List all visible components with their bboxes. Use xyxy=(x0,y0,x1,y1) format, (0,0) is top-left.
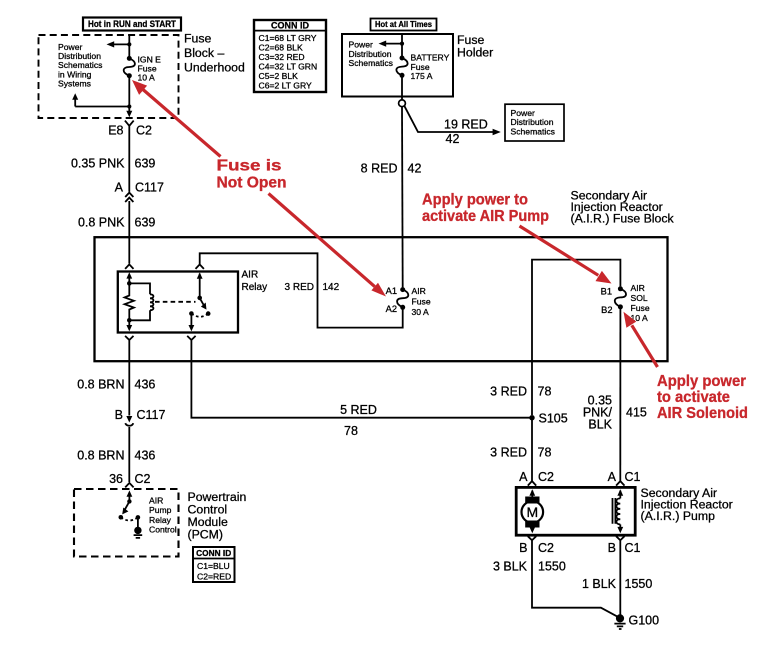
label: E8 C2 xyxy=(108,123,152,137)
wire: S105 riser up and over to fuse B1 xyxy=(532,260,620,415)
svg-text:Apply power: Apply power xyxy=(657,373,746,390)
svg-text:BLK: BLK xyxy=(588,417,612,431)
connector E8/C2 female Y symbol xyxy=(125,121,134,158)
svg-text:436: 436 xyxy=(135,378,156,392)
connector Y below pump (motor side) xyxy=(528,536,536,544)
svg-text:78: 78 xyxy=(538,385,552,399)
fuse AIR 30A xyxy=(397,287,408,310)
relay coil link dashed line xyxy=(155,301,196,303)
wire: exit to E8 with down arrow xyxy=(126,107,132,118)
svg-text:C1: C1 xyxy=(625,541,641,555)
svg-text:C2: C2 xyxy=(135,472,151,486)
label: Fuse Holder xyxy=(457,33,493,59)
label: A C2 (pump motor) xyxy=(519,470,554,484)
svg-text:Hot in RUN and START: Hot in RUN and START xyxy=(88,19,176,29)
svg-text:Schematics: Schematics xyxy=(349,58,393,68)
svg-text:8 RED: 8 RED xyxy=(361,162,398,176)
wire: 0.8 BRN 436 down to C117 xyxy=(128,344,130,416)
svg-text:C2=RED: C2=RED xyxy=(197,572,231,582)
svg-text:3 BLK: 3 BLK xyxy=(493,560,528,574)
label: 3 RED 78 (below S105) xyxy=(490,446,551,460)
svg-text:Fuse: Fuse xyxy=(631,303,650,313)
label: AIR Relay xyxy=(242,269,268,292)
wire: diagonal branch to power distribution arrow 19 RED 42 xyxy=(404,106,501,136)
svg-text:A: A xyxy=(519,470,528,484)
svg-text:Relay: Relay xyxy=(242,282,268,293)
label: 5 RED 78 xyxy=(340,403,377,438)
wire: into relay coil with up arrow xyxy=(126,272,132,283)
fuse BATTERY 175A xyxy=(396,56,407,78)
wire: branch arrow left (battery box) xyxy=(379,41,403,47)
wire: below fuse to branch xyxy=(128,76,130,107)
svg-text:3 RED: 3 RED xyxy=(490,385,527,399)
svg-text:C117: C117 xyxy=(135,181,164,195)
pump motor M symbol xyxy=(522,489,544,533)
svg-text:1 BLK: 1 BLK xyxy=(582,577,617,591)
label: 0.35 PNK/ BLK 415 xyxy=(583,393,647,431)
svg-text:B1: B1 xyxy=(601,287,612,297)
svg-text:0.8 PNK: 0.8 PNK xyxy=(78,216,125,230)
label: AIR SOL Fuse 10 A xyxy=(631,283,650,323)
svg-text:A: A xyxy=(115,181,124,195)
svg-text:1550: 1550 xyxy=(538,560,566,574)
svg-text:AIR: AIR xyxy=(412,286,426,296)
label: Secondary Air Injection Reactor (A.I.R.) Pump xyxy=(641,486,733,523)
node: junction dot lower xyxy=(127,104,131,108)
label: 8 RED 42 xyxy=(361,162,422,176)
wire: 3 BLK 1550 motor ground run xyxy=(532,544,618,617)
PCM switch arm with arrowhead xyxy=(119,501,130,519)
connector C117 lower: arrow into cup xyxy=(125,416,133,426)
svg-text:E8: E8 xyxy=(108,123,123,137)
svg-text:0.8 BRN: 0.8 BRN xyxy=(77,378,124,392)
svg-text:Hot at All Times: Hot at All Times xyxy=(375,19,432,29)
label: 19 RED 42 xyxy=(444,118,488,146)
label: B1 B2 xyxy=(601,287,613,315)
svg-text:30 A: 30 A xyxy=(412,307,429,317)
svg-text:B: B xyxy=(519,541,527,555)
svg-text:3 RED: 3 RED xyxy=(490,446,527,460)
wire: ignition feed vertical top xyxy=(128,35,130,56)
svg-text:3 RED: 3 RED xyxy=(285,282,314,293)
connector chevron into PCM xyxy=(125,483,133,488)
fuse block underhood dashed box xyxy=(39,35,179,118)
svg-text:(PCM): (PCM) xyxy=(188,527,224,541)
label: 1 BLK 1550 xyxy=(582,577,652,591)
ground G100 xyxy=(614,613,659,629)
red note: Apply power to activate AIR Pump xyxy=(422,192,549,226)
svg-text:C2: C2 xyxy=(136,123,152,137)
label: 0.35 PNK 639 xyxy=(71,157,155,171)
wire: coil output down arrow to relay box edge xyxy=(126,320,132,331)
svg-text:C3=32 RED: C3=32 RED xyxy=(259,52,305,62)
power distribution schematics box (right) xyxy=(505,104,564,141)
node: Hot at All Times header box xyxy=(371,19,437,31)
svg-text:Apply power to: Apply power to xyxy=(422,192,528,209)
wire: 0.8 PNK 639 segment down to fuse block box xyxy=(128,201,130,264)
connector C117 double chevron xyxy=(125,193,133,202)
svg-text:B: B xyxy=(115,408,123,422)
svg-text:A2: A2 xyxy=(386,304,397,314)
node: junction dot feed xyxy=(127,42,131,46)
svg-text:B2: B2 xyxy=(601,305,612,315)
connector chevron into relay coil xyxy=(125,264,133,269)
wire: fuse to splice circle xyxy=(401,75,403,100)
svg-text:C1=68 LT GRY: C1=68 LT GRY xyxy=(259,33,317,43)
svg-text:Fuse: Fuse xyxy=(184,31,211,45)
label: B C117 xyxy=(115,408,166,422)
svg-text:78: 78 xyxy=(538,446,552,460)
svg-text:639: 639 xyxy=(135,216,156,230)
label: Powertrain Control Module (PCM) xyxy=(188,490,247,542)
wire: S105 down to pump motor xyxy=(531,418,533,481)
label: IGN E Fuse 10 A xyxy=(138,54,162,82)
wire: branch to power distribution (left arrow) xyxy=(107,41,130,47)
label: AIR Fuse 30 A xyxy=(412,286,431,317)
svg-text:AIR: AIR xyxy=(242,269,259,280)
wire: 0.35 PNK 639 segment xyxy=(128,158,130,192)
red arrow to AIR SOL fuse B2 xyxy=(624,312,658,367)
label: A C1 (pump solenoid) xyxy=(608,470,641,484)
svg-text:C4=32 LT GRN: C4=32 LT GRN xyxy=(259,62,318,72)
AIR relay box xyxy=(118,272,238,333)
svg-text:19 RED: 19 RED xyxy=(444,118,488,132)
connector Y below relay (switch side) xyxy=(187,336,195,344)
svg-text:C1=BLU: C1=BLU xyxy=(197,561,230,571)
svg-text:S105: S105 xyxy=(539,412,568,426)
svg-text:activate AIR Pump: activate AIR Pump xyxy=(422,208,549,225)
label: 3 RED 78 (above S105) xyxy=(490,385,551,399)
svg-text:Holder: Holder xyxy=(457,45,493,59)
PCM dashed box xyxy=(74,489,179,557)
label: AIR Pump Relay Control xyxy=(149,496,177,535)
fuse AIR SOL 10A xyxy=(615,286,626,309)
svg-text:G100: G100 xyxy=(629,613,660,627)
svg-text:Systems: Systems xyxy=(58,79,91,89)
connector chevron into relay switch xyxy=(196,264,204,269)
fuse holder solid box xyxy=(342,34,453,97)
underhood electrical center big box xyxy=(95,237,668,361)
svg-text:Relay: Relay xyxy=(149,515,172,525)
label: 0.8 PNK 639 xyxy=(78,216,155,230)
wire: relay switch feed up and over to fuse A2 xyxy=(200,253,403,327)
wire: 1 BLK 1550 solenoid ground run xyxy=(619,544,621,617)
CONN ID table (PCM) xyxy=(193,547,235,582)
svg-text:AIR: AIR xyxy=(631,283,645,293)
svg-text:CONN ID: CONN ID xyxy=(196,548,231,558)
svg-text:42: 42 xyxy=(408,162,422,176)
label: BATTERY Fuse 175 A xyxy=(411,52,450,81)
label: B C2 xyxy=(519,541,554,555)
svg-text:5 RED: 5 RED xyxy=(340,403,377,417)
svg-text:AIR Solenoid: AIR Solenoid xyxy=(657,405,748,422)
svg-text:Fuse: Fuse xyxy=(412,297,431,307)
label: 3 RED 142 xyxy=(285,282,340,293)
svg-text:C5=2 BLK: C5=2 BLK xyxy=(259,71,299,81)
svg-text:639: 639 xyxy=(135,157,156,171)
svg-text:SOL: SOL xyxy=(631,293,648,303)
svg-text:142: 142 xyxy=(323,282,340,293)
pump solenoid coil symbol xyxy=(613,489,624,533)
svg-text:Not Open: Not Open xyxy=(217,175,287,192)
svg-text:42: 42 xyxy=(446,132,460,146)
PCM switch dashed travel arc xyxy=(121,517,138,520)
wire: B2 down to pump solenoid xyxy=(619,307,621,481)
label: 36 C2 xyxy=(109,472,150,486)
relay switch arm xyxy=(200,298,211,316)
svg-text:Block –: Block – xyxy=(184,46,224,60)
connector Y below relay (coil side) xyxy=(125,336,133,344)
svg-text:0.8 BRN: 0.8 BRN xyxy=(77,449,124,463)
AIR pump box xyxy=(516,487,635,535)
svg-text:(A.I.R.) Pump: (A.I.R.) Pump xyxy=(641,509,716,523)
svg-text:M: M xyxy=(526,504,538,520)
relay switch dashed travel arc xyxy=(191,314,208,317)
node: splice S105 xyxy=(529,412,567,426)
svg-text:to activate: to activate xyxy=(657,389,730,406)
svg-text:36: 36 xyxy=(109,472,123,486)
relay switch output contact with down arrow xyxy=(189,311,195,331)
PCM internal ground symbol xyxy=(134,527,143,538)
svg-text:A1: A1 xyxy=(386,286,397,296)
PCM driver: up arrow to pin 36 xyxy=(127,490,133,503)
label: Power Distribution Schematics in Wiring Systems xyxy=(58,42,102,89)
wire: branch left with up arrow xyxy=(72,93,129,106)
PCM switch fixed contact to ground xyxy=(136,515,141,527)
svg-text:AIR: AIR xyxy=(149,496,163,506)
wire: 5 RED 78 from relay to S105 xyxy=(191,344,529,418)
CONN ID table (underhood) xyxy=(254,20,326,92)
red arrow to AIR SOL fuse B1 xyxy=(520,226,612,284)
label: A1 A2 xyxy=(386,286,397,314)
svg-text:Control: Control xyxy=(149,525,177,535)
label: B C1 xyxy=(608,541,641,555)
wire: battery feed vertical in holder xyxy=(401,34,403,58)
svg-text:(A.I.R.) Fuse Block: (A.I.R.) Fuse Block xyxy=(571,212,675,226)
relay coil: parallel inductor branch xyxy=(129,283,153,320)
label: 0.8 BRN 436 (lower) xyxy=(77,449,155,463)
svg-text:415: 415 xyxy=(626,405,647,419)
connector chevrons into pump xyxy=(528,481,625,486)
label: Fuse Block - Underhood xyxy=(184,31,245,74)
connector Y below pump (solenoid side) xyxy=(616,536,624,544)
svg-text:B: B xyxy=(608,541,616,555)
wire: 8 RED 42 vertical down to A1 xyxy=(401,107,404,288)
svg-text:C2: C2 xyxy=(538,470,554,484)
label: 3 BLK 1550 xyxy=(493,560,566,574)
svg-text:Schematics: Schematics xyxy=(511,126,555,136)
node: Hot in RUN and START header box xyxy=(83,18,181,31)
svg-text:CONN ID: CONN ID xyxy=(271,21,310,31)
svg-text:C2=68 BLK: C2=68 BLK xyxy=(259,42,303,52)
svg-text:C2: C2 xyxy=(538,541,554,555)
wire: 0.8 BRN 436 to PCM xyxy=(128,427,130,482)
label: Secondary Air Injection Reactor (A.I.R.) Fuse Block xyxy=(571,189,675,226)
red arrow to IGN E fuse xyxy=(132,80,221,157)
red note: Fuse is Not Open xyxy=(217,157,287,191)
fuse IGN E 10A xyxy=(124,56,135,78)
svg-text:C117: C117 xyxy=(137,408,166,422)
svg-text:175 A: 175 A xyxy=(411,71,433,81)
node: junction dot battery xyxy=(400,42,404,46)
label: A C117 xyxy=(115,181,164,195)
svg-text:C6=2 LT GRY: C6=2 LT GRY xyxy=(259,81,313,91)
svg-text:0.35 PNK: 0.35 PNK xyxy=(71,157,125,171)
red arrow to AIR fuse A1 xyxy=(269,194,387,297)
svg-text:A: A xyxy=(608,470,617,484)
node: open splice circle xyxy=(399,100,406,107)
svg-text:Pump: Pump xyxy=(149,505,172,515)
svg-text:10 A: 10 A xyxy=(138,72,155,82)
svg-text:C1: C1 xyxy=(625,470,641,484)
svg-text:Fuse is: Fuse is xyxy=(217,157,282,174)
red note: Apply power to activate AIR Solenoid xyxy=(657,373,748,422)
relay switch: feed wire from A2 route xyxy=(197,272,203,300)
label: 0.8 BRN 436 (upper) xyxy=(77,378,155,392)
label: Power Distribution Schematics (fuse holder) xyxy=(349,40,393,68)
relay coil: resistor zigzag xyxy=(125,281,134,323)
svg-text:1550: 1550 xyxy=(625,577,653,591)
svg-text:78: 78 xyxy=(344,424,358,438)
svg-text:436: 436 xyxy=(135,449,156,463)
svg-text:Underhood: Underhood xyxy=(184,61,245,75)
